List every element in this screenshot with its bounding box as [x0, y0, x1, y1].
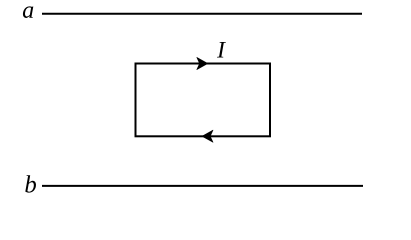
current label I	[217, 42, 226, 58]
wire b (bottom long straight wire)	[42, 185, 363, 187]
node a label	[23, 6, 33, 18]
wire a (top long straight wire)	[42, 13, 362, 15]
node b label	[25, 175, 36, 192]
current arrow on bottom side of loop (pointing left)	[202, 130, 213, 142]
rectangular current loop	[136, 64, 271, 137]
current arrow on top side of loop (pointing right)	[197, 57, 208, 69]
